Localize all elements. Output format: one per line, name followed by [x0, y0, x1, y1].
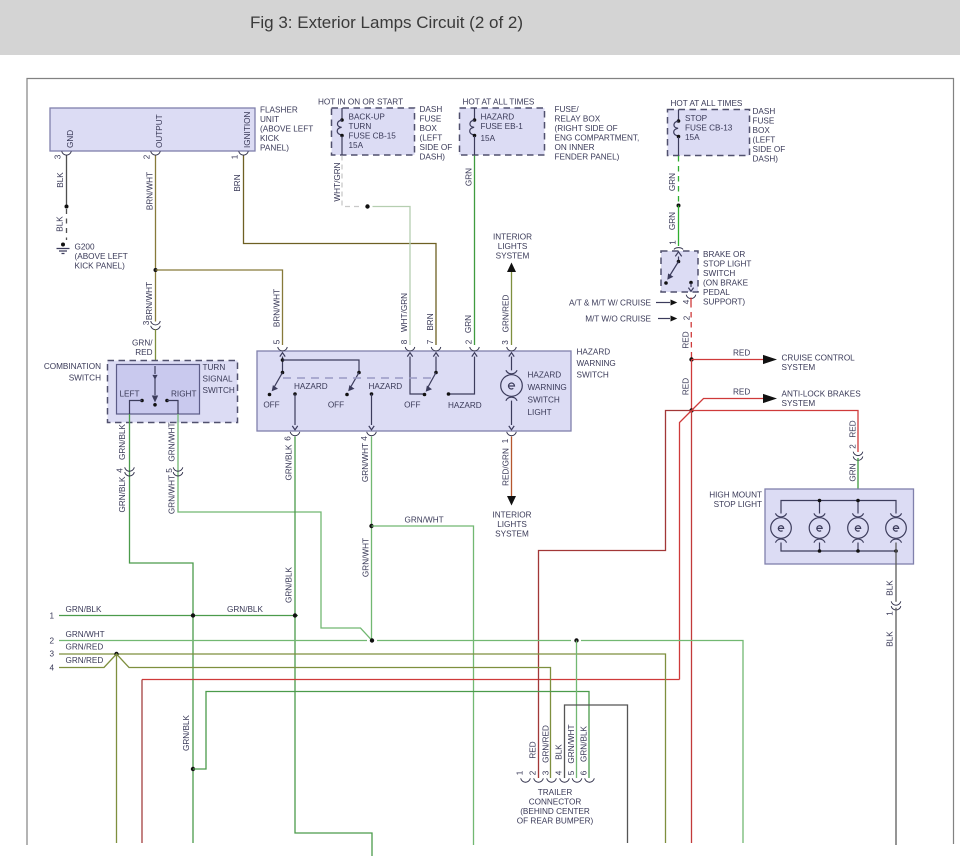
svg-text:FUSE CB-15: FUSE CB-15	[349, 132, 397, 141]
svg-text:HAZARD: HAZARD	[294, 382, 328, 391]
svg-text:BRN/WHT: BRN/WHT	[145, 282, 154, 320]
svg-text:G200: G200	[75, 243, 95, 252]
svg-text:SIDE OF: SIDE OF	[753, 145, 786, 154]
wire GRN/BLK from hazard pin 6	[285, 437, 373, 856]
high mount internal bus bottom	[781, 543, 898, 553]
wire BLK from flasher GND	[56, 156, 69, 241]
svg-text:5: 5	[273, 339, 282, 344]
node anti-lock junction	[689, 408, 693, 412]
svg-text:6: 6	[580, 770, 589, 775]
connector C1 in-line on BLK	[886, 601, 901, 615]
svg-text:BLK: BLK	[555, 744, 564, 760]
wire RED diagonal branch down	[680, 411, 692, 680]
svg-text:RED: RED	[682, 331, 691, 348]
svg-text:ENG COMPARTMENT,: ENG COMPARTMENT,	[555, 134, 640, 143]
fuse box CB-13 (dash fuse box)	[668, 99, 786, 164]
wire GRN/WHT from turn signal RIGHT	[168, 414, 373, 641]
svg-text:1: 1	[516, 770, 525, 775]
svg-text:TURN: TURN	[349, 122, 372, 131]
svg-text:GRN/BLK: GRN/BLK	[285, 566, 294, 602]
hazard pin 2 cup	[465, 339, 480, 351]
svg-text:ON INNER: ON INNER	[555, 143, 595, 152]
svg-text:WARNING: WARNING	[528, 383, 567, 392]
svg-text:IGNITION: IGNITION	[243, 112, 252, 148]
svg-text:GRN/WHT: GRN/WHT	[567, 724, 576, 763]
svg-text:GRN/BLK: GRN/BLK	[66, 605, 102, 614]
svg-text:OFF: OFF	[404, 401, 420, 410]
svg-text:INTERIOR: INTERIOR	[493, 233, 532, 242]
svg-text:HIGH MOUNT: HIGH MOUNT	[709, 491, 762, 500]
svg-text:RED: RED	[733, 349, 750, 358]
svg-text:2: 2	[849, 444, 858, 449]
svg-text:SIDE OF: SIDE OF	[420, 143, 453, 152]
hazard switch pole B	[328, 371, 402, 430]
svg-text:HAZARD: HAZARD	[528, 371, 562, 380]
svg-text:GRN/WHT: GRN/WHT	[66, 630, 105, 639]
hazard warning switch box	[257, 348, 616, 432]
svg-text:GRN/RED: GRN/RED	[66, 656, 104, 665]
svg-text:8: 8	[400, 339, 409, 344]
hazard pin 6 cup	[284, 432, 300, 441]
svg-text:OUTPUT: OUTPUT	[155, 114, 164, 148]
svg-text:CONNECTOR: CONNECTOR	[529, 798, 582, 807]
svg-text:SWITCH: SWITCH	[528, 396, 560, 405]
wire GRN/BLK to trailer pin 6	[193, 692, 589, 779]
hazard pin 8 cup	[400, 339, 415, 351]
hazard warning switch light lamp	[501, 353, 567, 430]
svg-text:RED: RED	[135, 348, 152, 357]
svg-text:BRN: BRN	[233, 174, 242, 191]
svg-text:2: 2	[143, 154, 152, 159]
hazard switch pole A	[263, 353, 359, 430]
svg-text:SYSTEM: SYSTEM	[495, 530, 529, 539]
fuse CB-13 symbol	[674, 110, 681, 156]
lamp 3	[848, 513, 869, 542]
svg-text:WARNING: WARNING	[577, 359, 616, 368]
node cruise junction	[689, 357, 693, 361]
svg-text:GRN/BLK: GRN/BLK	[227, 605, 263, 614]
wire RED to trailer pin 2	[539, 411, 692, 779]
svg-text:FUSE EB-1: FUSE EB-1	[481, 122, 524, 131]
svg-text:1: 1	[886, 611, 895, 616]
wire WHT/GRN dashed from CB-15	[333, 156, 363, 207]
svg-text:SIGNAL: SIGNAL	[203, 375, 233, 384]
svg-text:2: 2	[49, 637, 54, 646]
svg-text:SYSTEM: SYSTEM	[782, 399, 816, 408]
brake switch pin out cup	[686, 295, 696, 299]
wire RED from junction to high mount	[692, 411, 859, 453]
svg-text:DASH: DASH	[420, 105, 443, 114]
svg-text:BRAKE OR: BRAKE OR	[703, 250, 745, 259]
svg-text:GRN/RED: GRN/RED	[502, 295, 511, 333]
ground G200	[57, 243, 128, 271]
svg-text:15A: 15A	[481, 134, 496, 143]
svg-text:GRN/BLK: GRN/BLK	[182, 714, 191, 750]
svg-text:5: 5	[165, 468, 174, 473]
annotation A/T & M/T W/ CRUISE	[569, 299, 691, 308]
hazard pin 3 cup	[501, 340, 516, 351]
svg-text:BOX: BOX	[420, 124, 438, 133]
hazard pin 1 cup	[501, 432, 516, 443]
trailer connector	[516, 724, 595, 825]
svg-text:3: 3	[542, 770, 551, 775]
fuse CB-15 symbol	[337, 108, 344, 155]
flasher pin 1 cup	[231, 151, 249, 159]
svg-text:SYSTEM: SYSTEM	[496, 252, 530, 261]
svg-text:PEDAL: PEDAL	[703, 288, 730, 297]
connector C4 in-line on GRN/BLK	[116, 467, 135, 476]
svg-text:2: 2	[465, 339, 474, 344]
svg-text:HOT AT ALL TIMES: HOT AT ALL TIMES	[671, 99, 743, 108]
turn signal switch contacts	[120, 366, 197, 414]
svg-text:3: 3	[49, 650, 54, 659]
svg-text:(ABOVE LEFT: (ABOVE LEFT	[75, 252, 128, 261]
svg-text:1: 1	[231, 154, 240, 159]
svg-text:GRN: GRN	[849, 463, 858, 481]
svg-text:HAZARD: HAZARD	[481, 113, 515, 122]
svg-text:4: 4	[682, 299, 691, 304]
svg-text:5: 5	[567, 770, 576, 775]
svg-text:INTERIOR: INTERIOR	[492, 511, 531, 520]
svg-text:SWITCH: SWITCH	[69, 374, 101, 383]
bus line 2 GRN/WHT	[49, 630, 743, 843]
wire WHT/GRN to hazard pin 8	[373, 207, 411, 346]
svg-text:GRN/WHT: GRN/WHT	[361, 443, 370, 482]
brake or stop light switch	[661, 250, 751, 307]
svg-text:GRN: GRN	[668, 173, 677, 191]
brake switch pin 1 cup	[669, 240, 684, 250]
svg-text:GRN/BLK: GRN/BLK	[118, 476, 127, 512]
svg-text:(RIGHT SIDE OF: (RIGHT SIDE OF	[555, 124, 618, 133]
node BRN/WHT junction	[154, 268, 158, 272]
flasher pin 3 cup	[54, 151, 72, 159]
hazard pin 4 cup	[360, 432, 376, 441]
svg-text:SWITCH: SWITCH	[577, 371, 609, 380]
wire GRN/WHT branch to the right	[372, 516, 474, 846]
connector C3 in-line on BRN/WHT	[142, 282, 160, 330]
svg-text:GRN/BLK: GRN/BLK	[580, 725, 589, 761]
svg-text:CRUISE CONTROL: CRUISE CONTROL	[782, 354, 856, 363]
wire BRN/WHT branch to hazard pin 5	[156, 270, 283, 345]
svg-text:HOT IN ON OR START: HOT IN ON OR START	[318, 98, 403, 107]
svg-text:3: 3	[142, 320, 151, 325]
svg-text:WHT/GRN: WHT/GRN	[400, 293, 409, 332]
svg-text:BRN/WHT: BRN/WHT	[273, 289, 282, 327]
svg-text:GRN/BLK: GRN/BLK	[118, 423, 127, 459]
wire RED bus to bottom left	[142, 680, 680, 844]
svg-text:STOP LIGHT: STOP LIGHT	[714, 500, 762, 509]
svg-text:LIGHT: LIGHT	[528, 408, 552, 417]
svg-text:WHT/GRN: WHT/GRN	[333, 162, 342, 201]
bus line 4 GRN/RED	[49, 654, 550, 778]
svg-text:GRN/RED: GRN/RED	[66, 643, 104, 652]
svg-text:STOP: STOP	[685, 114, 708, 123]
wire GRN/BLK from turn signal LEFT	[118, 414, 193, 843]
svg-text:HAZARD: HAZARD	[369, 382, 403, 391]
wire GRN/RED into turn signal switch	[132, 329, 155, 366]
fuse box CB-15 (dash fuse box)	[318, 98, 452, 162]
svg-text:1: 1	[49, 612, 54, 621]
svg-text:SYSTEM: SYSTEM	[782, 363, 816, 372]
lamp 1	[771, 513, 792, 542]
svg-text:RELAY BOX: RELAY BOX	[555, 115, 601, 124]
svg-text:HAZARD: HAZARD	[448, 401, 482, 410]
node GRN/BLK trailer tap	[191, 767, 195, 771]
high mount stop light box	[709, 489, 913, 564]
svg-text:KICK: KICK	[260, 134, 280, 143]
connector C5 in-line on GRN/WHT	[165, 467, 183, 476]
wire GRN/RED junction drop	[116, 654, 118, 843]
svg-text:UNIT: UNIT	[260, 115, 279, 124]
svg-text:M/T W/O CRUISE: M/T W/O CRUISE	[585, 315, 651, 324]
bus line 3 GRN/RED	[49, 643, 665, 844]
svg-text:BACK-UP: BACK-UP	[349, 113, 386, 122]
svg-text:GRN/: GRN/	[132, 339, 153, 348]
svg-text:RIGHT: RIGHT	[171, 390, 196, 399]
svg-text:OFF: OFF	[328, 401, 344, 410]
svg-text:(ABOVE LEFT: (ABOVE LEFT	[260, 125, 313, 134]
fuse EB-1 symbol	[470, 108, 477, 155]
svg-text:GRN/WHT: GRN/WHT	[362, 538, 371, 577]
svg-text:SUPPORT): SUPPORT)	[703, 298, 745, 307]
svg-text:PANEL): PANEL)	[260, 144, 289, 153]
svg-text:KICK PANEL): KICK PANEL)	[75, 262, 126, 271]
wire GRN/WHT to trailer pin 5	[576, 641, 578, 779]
svg-text:GRN/WHT: GRN/WHT	[405, 516, 444, 525]
connector C2 in-line on high mount feed	[849, 444, 863, 461]
flasher pin 2 cup	[143, 151, 161, 159]
wire RED dashed from brake switch	[682, 298, 692, 358]
svg-text:FUSE: FUSE	[420, 115, 442, 124]
hazard pin 5 cup	[273, 339, 288, 351]
svg-text:1: 1	[669, 240, 678, 245]
svg-text:GRN/RED: GRN/RED	[542, 725, 551, 763]
wire GRN/RED to interior lights (top)	[493, 233, 532, 346]
svg-text:(ON BRAKE: (ON BRAKE	[703, 279, 749, 288]
svg-text:GRN: GRN	[464, 315, 473, 333]
combination switch (turn signal switch)	[44, 361, 238, 423]
arrow to anti-lock brakes system	[692, 388, 862, 411]
wire BLK from high mount	[886, 543, 897, 602]
svg-text:BLK: BLK	[56, 216, 65, 232]
svg-text:DASH: DASH	[753, 107, 776, 116]
hazard switch pole C	[404, 353, 482, 410]
lamp 2	[809, 513, 830, 542]
arrow to cruise control system	[692, 349, 856, 373]
svg-text:RED: RED	[849, 420, 858, 437]
svg-text:GND: GND	[66, 130, 75, 148]
wire RED to anti-lock junction	[682, 360, 692, 411]
node GRN/WHT branch junction	[369, 524, 373, 528]
svg-text:(LEFT: (LEFT	[420, 134, 443, 143]
svg-text:1: 1	[501, 438, 510, 443]
svg-text:BRN: BRN	[426, 313, 435, 330]
hazard switch mechanical link	[283, 377, 436, 379]
wire BLK trailer loop	[565, 705, 628, 843]
svg-text:TURN: TURN	[203, 363, 226, 372]
svg-text:OFF: OFF	[263, 401, 279, 410]
svg-text:LEFT: LEFT	[120, 390, 140, 399]
svg-text:ANTI-LOCK BRAKES: ANTI-LOCK BRAKES	[782, 390, 862, 399]
svg-text:3: 3	[54, 154, 63, 159]
svg-text:6: 6	[284, 436, 293, 441]
svg-text:SWITCH: SWITCH	[203, 386, 235, 395]
svg-text:SWITCH: SWITCH	[703, 269, 735, 278]
svg-text:RED: RED	[529, 741, 538, 758]
svg-text:LIGHTS: LIGHTS	[497, 520, 527, 529]
svg-text:2: 2	[529, 770, 538, 775]
wire GRN from EB-1 to hazard pin 2	[464, 156, 475, 346]
svg-text:GRN: GRN	[668, 212, 677, 230]
svg-text:BLK: BLK	[56, 172, 65, 188]
svg-text:FUSE/: FUSE/	[555, 105, 580, 114]
svg-text:15A: 15A	[349, 141, 364, 150]
wire GRN/WHT from hazard pin 4	[361, 437, 372, 641]
node WHT/GRN splice	[365, 204, 369, 208]
svg-text:4: 4	[116, 468, 125, 473]
bus line 1 GRN/BLK	[49, 605, 298, 621]
svg-text:GRN/WHT: GRN/WHT	[168, 422, 177, 461]
svg-text:RED: RED	[682, 378, 691, 395]
wire BRN from flasher IGNITION	[233, 156, 436, 346]
wire BLK to bottom	[886, 608, 897, 845]
annotation M/T W/O CRUISE	[585, 315, 691, 324]
svg-text:LIGHTS: LIGHTS	[498, 242, 528, 251]
svg-text:FUSE: FUSE	[753, 117, 775, 126]
wire GRN dashed from CB-13	[668, 156, 681, 246]
svg-text:FLASHER: FLASHER	[260, 106, 298, 115]
svg-text:4: 4	[49, 664, 54, 673]
svg-text:3: 3	[501, 340, 510, 345]
fuse box EB-1 (fuse/relay box)	[460, 98, 640, 162]
svg-text:COMBINATION: COMBINATION	[44, 362, 101, 371]
svg-text:BRN/WHT: BRN/WHT	[146, 172, 155, 210]
svg-text:FUSE CB-13: FUSE CB-13	[685, 124, 733, 133]
wire RED/GRN to interior lights (bottom)	[492, 437, 531, 539]
svg-text:15A: 15A	[685, 133, 700, 142]
high mount internal bus top	[781, 499, 896, 514]
svg-text:FENDER PANEL): FENDER PANEL)	[555, 153, 620, 162]
wire RED vertical to bottom	[691, 411, 693, 844]
svg-text:4: 4	[360, 436, 369, 441]
svg-text:A/T & M/T W/ CRUISE: A/T & M/T W/ CRUISE	[569, 299, 652, 308]
svg-text:2: 2	[683, 315, 692, 320]
wire BRN/WHT from flasher OUTPUT	[146, 156, 156, 322]
svg-text:TRAILER: TRAILER	[538, 788, 573, 797]
svg-text:BLK: BLK	[886, 631, 895, 647]
lamp 4	[886, 513, 907, 542]
svg-text:RED/GRN: RED/GRN	[502, 448, 511, 486]
svg-text:DASH): DASH)	[420, 153, 446, 162]
svg-text:OF REAR BUMPER): OF REAR BUMPER)	[517, 817, 594, 826]
svg-text:4: 4	[555, 770, 564, 775]
wire GRN into high mount stop light	[849, 458, 859, 489]
svg-text:HOT AT ALL TIMES: HOT AT ALL TIMES	[463, 98, 535, 107]
svg-text:GRN: GRN	[465, 168, 474, 186]
svg-text:DASH): DASH)	[753, 155, 779, 164]
hazard pin 7 cup	[426, 339, 441, 351]
svg-text:BOX: BOX	[753, 126, 771, 135]
svg-text:GRN/BLK: GRN/BLK	[285, 444, 294, 480]
svg-text:RED: RED	[733, 388, 750, 397]
svg-text:HAZARD: HAZARD	[577, 348, 611, 357]
svg-text:BLK: BLK	[886, 580, 895, 596]
svg-text:7: 7	[426, 339, 435, 344]
svg-text:(LEFT: (LEFT	[753, 136, 776, 145]
svg-text:STOP LIGHT: STOP LIGHT	[703, 260, 751, 269]
flasher unit	[50, 106, 313, 153]
svg-text:(BEHIND CENTER: (BEHIND CENTER	[520, 807, 590, 816]
svg-text:GRN/WHT: GRN/WHT	[168, 475, 177, 514]
